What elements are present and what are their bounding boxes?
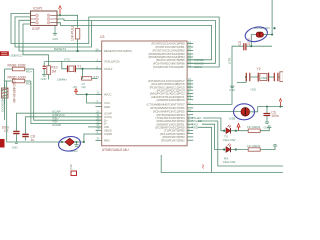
ground GND1 — [71, 142, 79, 153]
IC left pin labels — [104, 49, 132, 143]
annotation blue circle on L1 — [58, 135, 82, 152]
LED TX yellow — [223, 125, 249, 142]
power +5V arrow at ICSP — [59, 6, 62, 16]
power +5V to AVCC — [73, 85, 102, 103]
svg-text:PAD: PAD — [104, 139, 110, 143]
svg-text:USB: USB — [229, 117, 235, 121]
IC right pin stubs PD — [187, 104, 193, 140]
jumper RESET-EN — [250, 26, 272, 47]
svg-text:XT1: XT1 — [93, 75, 99, 79]
wire DTR to C5 — [187, 46, 243, 104]
svg-text:RESET2: RESET2 — [54, 47, 66, 51]
svg-text:UGND: UGND — [52, 123, 62, 127]
svg-text:GND: GND — [41, 77, 47, 81]
wire right edge top — [271, 0, 273, 35]
svg-text:SCK2: SCK2 — [194, 65, 202, 69]
svg-text:(PDO/PCINT2)PB2: (PDO/PCINT2)PB2 — [161, 138, 185, 142]
wire RESET2 — [19, 20, 102, 51]
svg-text:GND: GND — [104, 105, 110, 109]
USB connector stub X2 — [0, 51, 9, 56]
svg-text:22p: 22p — [82, 85, 87, 89]
svg-text:GND: GND — [229, 88, 235, 92]
svg-text:ATMEGA8U2-MU: ATMEGA8U2-MU — [102, 148, 129, 152]
capacitor C7 100n — [2, 126, 20, 143]
resistor RN1B pullup — [71, 25, 80, 51]
wire — [15, 17, 215, 63]
svg-text:Y2: Y2 — [257, 67, 261, 71]
annotation blue circle on RESET-EN — [244, 25, 269, 44]
wire left vertical from resistors — [4, 69, 6, 120]
svg-text:DTR: DTR — [228, 57, 232, 64]
connector ICSP1 — [31, 7, 58, 31]
wire XT2 — [45, 60, 102, 62]
svg-text:16M: 16M — [261, 76, 267, 80]
wire nested bus top-left to ICSP left pads — [11, 13, 219, 67]
svg-text:RN3B 100R: RN3B 100R — [8, 63, 27, 67]
svg-text:AVCC: AVCC — [104, 93, 112, 97]
ground below cap — [41, 75, 47, 81]
svg-text:1M: 1M — [51, 69, 56, 73]
junction — [77, 50, 79, 52]
capacitor C5 100n — [238, 38, 272, 50]
svg-text:YELLOW: YELLOW — [223, 160, 236, 164]
crystal Y1 — [57, 61, 102, 81]
svg-text:1u: 1u — [31, 138, 35, 142]
IC left pin stubs — [96, 51, 102, 141]
IC U3 ATMEGA8U2 — [100, 35, 187, 152]
svg-text:MF-MSMF050-2: MF-MSMF050-2 — [13, 78, 17, 103]
wire D+ — [34, 69, 102, 120]
svg-text:(SCK/PCINT7/OC0A)PB7: (SCK/PCINT7/OC0A)PB7 — [153, 65, 185, 69]
wire ICSP right pads to +5V / pullup — [57, 15, 78, 27]
svg-text:GND: GND — [12, 146, 18, 150]
varistor red pad — [0, 139, 5, 148]
resistor RX 1K — [247, 144, 277, 151]
ground below C7 — [12, 142, 19, 150]
wire UCAP to C7 — [16, 113, 101, 131]
IC right pin labels PC — [148, 79, 185, 102]
LED RX yellow — [223, 144, 249, 165]
ground below ICSP — [52, 25, 58, 41]
annotation blue circle on LED — [234, 104, 255, 120]
svg-text:XTAL2: XTAL2 — [104, 67, 113, 71]
wire UGND down — [84, 134, 102, 142]
svg-text:CG0603MLC-05E: CG0603MLC-05E — [1, 87, 5, 112]
svg-text:U3: U3 — [100, 35, 104, 39]
wire UID stub — [88, 126, 102, 128]
power +5V at right edge — [279, 99, 282, 108]
wire bus stub left — [161, 155, 211, 173]
resistor TX 1K — [247, 125, 272, 132]
svg-text:ICSP: ICSP — [32, 27, 41, 31]
IC right pin labels PB — [149, 42, 185, 69]
ground below C6 — [264, 122, 270, 130]
IC left pin numbers — [97, 58, 100, 141]
svg-text:10K-PULL: 10K-PULL — [71, 25, 75, 41]
wire RXLED row — [202, 124, 224, 149]
IC right pin labels PD — [147, 103, 185, 143]
svg-text:ICSP1: ICSP1 — [33, 7, 43, 11]
ferrite bead L1 — [7, 81, 85, 146]
crystal cluster: cap C4 — [43, 61, 46, 74]
capacitor C8 1u — [22, 134, 35, 142]
LED ON (green) — [229, 107, 283, 121]
resistor RN3D — [5, 75, 32, 85]
IC right pin stubs PC — [187, 81, 193, 100]
crystal Y2 cluster — [237, 67, 283, 83]
wire TXLED row — [203, 118, 224, 131]
wire D- — [31, 81, 102, 124]
svg-text:1K GND2: 1K GND2 — [247, 144, 261, 148]
polyfuse F1 — [2, 78, 17, 104]
ground at DTR line — [229, 86, 256, 92]
svg-text:1K GND2: 1K GND2 — [247, 125, 261, 129]
svg-text:GND: GND — [52, 37, 58, 41]
wire USBVCC branch — [23, 24, 49, 66]
svg-text:YELLOW: YELLOW — [223, 138, 236, 142]
IC right pin numbers — [188, 40, 191, 134]
svg-text:16MHz: 16MHz — [57, 78, 67, 82]
capacitor C6 — [264, 106, 279, 122]
svg-text:C10: C10 — [69, 164, 73, 170]
svg-text:USBVCC: USBVCC — [10, 54, 24, 58]
svg-text:100n: 100n — [271, 114, 279, 118]
wire long MOSI2 — [57, 23, 212, 60]
svg-text:(AIN0/INT3/ADC8)PC0: (AIN0/INT3/ADC8)PC0 — [156, 98, 185, 102]
svg-text:GND: GND — [251, 88, 257, 92]
wire to ON LED — [187, 111, 241, 113]
svg-text:C5: C5 — [238, 41, 242, 45]
svg-text:RN3D 100R: RN3D 100R — [8, 75, 27, 79]
wire TXD to bus — [198, 121, 283, 166]
IC right pin stubs PB — [187, 44, 193, 68]
svg-text:C7: C7 — [4, 129, 8, 133]
wire RXD to bus — [198, 127, 283, 172]
svg-text:XT2: XT2 — [64, 57, 70, 61]
svg-text:RESET(PCINT14/DW): RESET(PCINT14/DW) — [104, 49, 132, 53]
power +5V near LEDs — [237, 124, 240, 131]
svg-text:RD+: RD+ — [26, 69, 32, 73]
svg-text:+5V: +5V — [201, 164, 205, 169]
svg-text:Y1: Y1 — [77, 65, 81, 69]
net labels TXLED RXLED TXD RXD — [192, 116, 203, 129]
svg-text:UGND: UGND — [104, 132, 112, 136]
small part bottom C10 — [69, 164, 77, 176]
wire long MISO2 from ICSP — [57, 19, 92, 21]
svg-text:+5V: +5V — [73, 85, 78, 89]
svg-text:RXD: RXD — [192, 125, 199, 129]
svg-text:XTAL1(PC0): XTAL1(PC0) — [104, 60, 119, 64]
resistor to XT1 — [81, 69, 99, 89]
resistor R10 1M — [47, 66, 58, 80]
wire UVCC to C8 — [26, 117, 102, 134]
resistor RN3B — [5, 63, 34, 73]
